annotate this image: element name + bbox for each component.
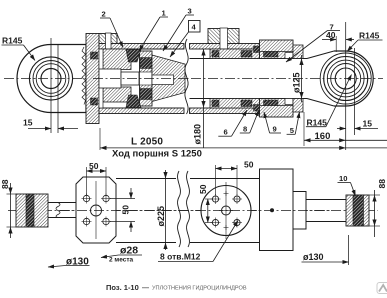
svg-text:L 2050: L 2050 xyxy=(131,136,163,147)
svg-text:ø225: ø225 xyxy=(156,206,166,227)
svg-text:3: 3 xyxy=(188,7,192,16)
svg-text:6: 6 xyxy=(224,128,228,137)
svg-text:1: 1 xyxy=(162,9,167,18)
svg-text:15: 15 xyxy=(23,118,33,128)
svg-text:—: — xyxy=(142,285,149,292)
svg-text:5: 5 xyxy=(290,126,295,135)
svg-text:R145: R145 xyxy=(307,118,328,128)
svg-text:50: 50 xyxy=(244,160,254,170)
svg-text:8: 8 xyxy=(243,125,247,134)
svg-text:8 отв.М12: 8 отв.М12 xyxy=(160,252,201,262)
svg-text:2 места: 2 места xyxy=(109,257,134,264)
svg-text:10: 10 xyxy=(339,174,347,183)
svg-text:2: 2 xyxy=(102,10,106,19)
svg-text:15: 15 xyxy=(363,119,373,129)
svg-text:ø130: ø130 xyxy=(303,252,324,262)
svg-text:50: 50 xyxy=(198,184,208,194)
svg-text:ø125: ø125 xyxy=(292,72,302,93)
svg-text:40: 40 xyxy=(326,30,336,40)
svg-text:Ход поршня S 1250: Ход поршня S 1250 xyxy=(112,149,202,160)
svg-text:88: 88 xyxy=(377,179,387,189)
svg-text:50: 50 xyxy=(121,205,131,215)
svg-text:R145: R145 xyxy=(359,31,380,41)
svg-text:50: 50 xyxy=(89,161,99,171)
svg-text:Поз. 1-10: Поз. 1-10 xyxy=(106,283,139,292)
svg-text:9: 9 xyxy=(273,125,277,134)
svg-text:ø180: ø180 xyxy=(193,124,203,145)
svg-text:УПЛОТНЕНИЯ ГИДРОЦИЛИНДРОВ: УПЛОТНЕНИЯ ГИДРОЦИЛИНДРОВ xyxy=(152,286,247,292)
svg-text:R145: R145 xyxy=(2,36,23,46)
svg-text:88: 88 xyxy=(0,179,10,189)
